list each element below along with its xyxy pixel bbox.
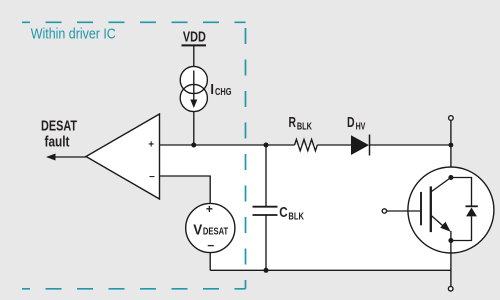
junction: collector rail node bbox=[449, 143, 454, 148]
svg-text:BLK: BLK bbox=[297, 121, 313, 132]
svg-text:DESAT: DESAT bbox=[41, 119, 77, 135]
resistor RBLK bbox=[295, 139, 318, 150]
label ICHG bbox=[210, 82, 231, 98]
label RBLK bbox=[289, 115, 313, 133]
svg-text:HV: HV bbox=[356, 121, 366, 132]
capacitor CBLK bbox=[253, 207, 278, 215]
terminal: gate bbox=[382, 209, 386, 213]
wire RBLK to DHV bbox=[317, 144, 351, 146]
arrowhead output bbox=[46, 154, 56, 161]
wire node to CBLK bbox=[265, 145, 267, 207]
terminal: collector top bbox=[449, 116, 454, 121]
wire emitter down bbox=[450, 241, 452, 287]
output wire DESAT fault bbox=[50, 156, 86, 158]
wire CBLK to bottom rail bbox=[265, 215, 267, 270]
svg-text:VDD: VDD bbox=[183, 30, 206, 46]
svg-text:−: − bbox=[207, 239, 214, 253]
wire - input to VDESAT bbox=[160, 176, 211, 204]
transistor IGBT circle bbox=[408, 167, 494, 253]
terminal: emitter bottom bbox=[448, 286, 453, 291]
dashed box: bottom border bbox=[22, 288, 246, 290]
diode DHV bbox=[351, 135, 370, 156]
node: collector inside bbox=[448, 175, 453, 180]
wire: top rail comparator to RBLK bbox=[160, 144, 295, 146]
svg-text:BLK: BLK bbox=[288, 212, 304, 223]
current source ICHG (two overlapping circles) bbox=[180, 66, 207, 111]
wire current source to node bbox=[193, 112, 195, 146]
wire VDD to current source bbox=[193, 45, 195, 67]
IGBT body bbox=[421, 178, 451, 241]
svg-text:D: D bbox=[347, 115, 355, 131]
svg-text:Within driver IC: Within driver IC bbox=[31, 27, 116, 43]
junction: ICHG / +input node bbox=[191, 143, 196, 148]
op-amp comparator bbox=[86, 114, 160, 199]
white interior of circuit loop bbox=[160, 145, 451, 270]
svg-text:C: C bbox=[279, 205, 288, 221]
gate wire bbox=[387, 210, 420, 212]
svg-text:+: + bbox=[148, 139, 154, 150]
svg-text:+: + bbox=[206, 202, 213, 216]
wire top terminal down bbox=[450, 120, 452, 177]
svg-text:DESAT: DESAT bbox=[203, 226, 229, 238]
svg-text:CHG: CHG bbox=[215, 87, 232, 98]
svg-text:I: I bbox=[210, 82, 214, 98]
freewheel diode branch bbox=[451, 178, 478, 241]
label CBLK bbox=[279, 205, 304, 222]
label DHV bbox=[347, 115, 366, 133]
VDD supply bar bbox=[182, 44, 207, 46]
svg-text:V: V bbox=[193, 222, 202, 239]
svg-text:fault: fault bbox=[45, 135, 70, 151]
junction: CBLK bottom node bbox=[264, 268, 269, 273]
label DESAT fault bbox=[41, 119, 77, 151]
svg-text:−: − bbox=[149, 172, 155, 183]
node: emitter inside bbox=[448, 238, 453, 243]
junction: CBLK top node bbox=[264, 143, 269, 148]
wire DHV to IGBT collector rail bbox=[370, 144, 451, 146]
voltage source VDESAT bbox=[186, 202, 235, 253]
wire bottom rail bbox=[210, 269, 451, 271]
dashed box: within driver IC (top border) bbox=[22, 21, 246, 23]
dashed box: right border bbox=[245, 22, 247, 289]
svg-text:R: R bbox=[289, 115, 297, 131]
wire VDESAT to bottom rail bbox=[209, 252, 211, 270]
